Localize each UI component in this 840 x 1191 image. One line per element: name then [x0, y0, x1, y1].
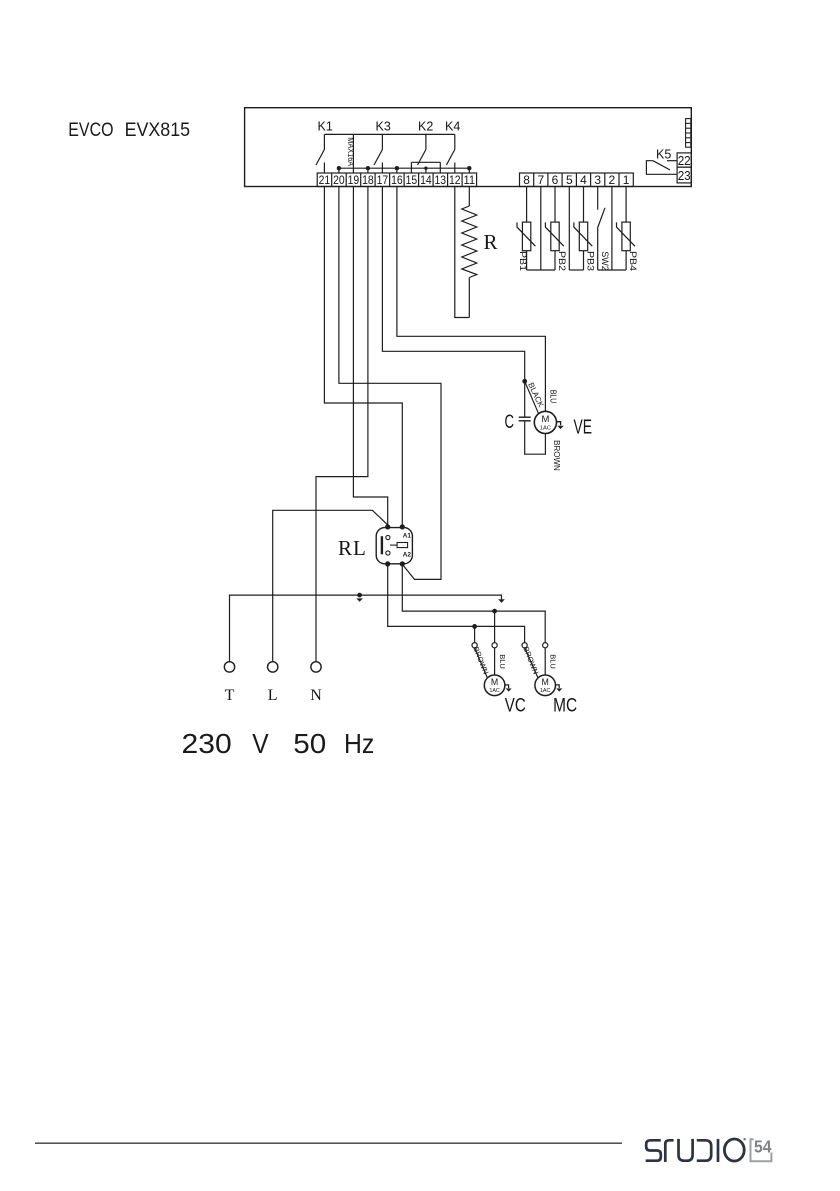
relay contact K3: [374, 134, 382, 173]
svg-text:23: 23: [678, 168, 691, 183]
svg-text:16: 16: [391, 173, 403, 187]
svg-text:8: 8: [523, 173, 530, 187]
svg-text:PB2: PB2: [557, 251, 567, 271]
terminal strip 21-11: [317, 173, 476, 187]
svg-text:12: 12: [449, 173, 461, 187]
svg-text:3: 3: [594, 173, 601, 187]
bridge bus terminals 15-13: [411, 162, 440, 173]
wire RL A2 to blu bus: [402, 564, 545, 643]
svg-text:17: 17: [377, 173, 389, 187]
svg-text:SW2: SW2: [600, 251, 610, 271]
svg-text:PB3: PB3: [585, 251, 595, 271]
terminal strip 8-1: [520, 173, 634, 187]
svg-text:C: C: [505, 412, 515, 433]
junction dot brown bus: [472, 624, 477, 629]
terminal 22: [677, 153, 691, 167]
svg-text:BROWN: BROWN: [521, 646, 540, 676]
bar PB1-7-PB2: [527, 269, 555, 271]
svg-text:1AC: 1AC: [540, 688, 551, 694]
wire to VC blu: [494, 611, 496, 643]
svg-text:13: 13: [435, 173, 447, 187]
top bus (relay commons): [324, 133, 454, 135]
relay contact K5: [646, 161, 677, 175]
probe PB4: [617, 187, 635, 271]
wire black to motor: [525, 381, 539, 413]
svg-text:MAX16A: MAX16A: [346, 137, 355, 167]
wire 16 to VE blu: [397, 187, 546, 412]
svg-text:1: 1: [623, 173, 630, 187]
svg-text:K1: K1: [318, 120, 333, 134]
svg-text:5: 5: [566, 173, 573, 187]
svg-text:M: M: [491, 677, 498, 687]
svg-text:20: 20: [333, 173, 345, 187]
svg-text:A1: A1: [403, 533, 412, 540]
wire 12 loop: [455, 187, 470, 318]
wire T bus: [230, 595, 502, 662]
svg-text:VC: VC: [505, 696, 526, 717]
svg-text:K3: K3: [376, 120, 391, 134]
node black (junction): [522, 379, 527, 384]
svg-text:EVX815: EVX815: [125, 119, 191, 141]
footer rule: [35, 1142, 622, 1144]
bar 5-PB3: [569, 269, 583, 271]
svg-text:A2: A2: [403, 551, 412, 558]
svg-text:7: 7: [537, 173, 544, 187]
svg-text:1AC: 1AC: [540, 426, 551, 432]
svg-text:PB1: PB1: [518, 251, 528, 271]
svg-text:BROWN: BROWN: [552, 440, 561, 471]
junction dot blu bus: [492, 609, 497, 614]
wire 21 to RL A1: [324, 187, 402, 527]
svg-text:1AC: 1AC: [489, 688, 500, 694]
svg-text:BROWN: BROWN: [471, 646, 490, 676]
svg-text:EVCO: EVCO: [68, 119, 113, 141]
svg-text:4: 4: [580, 173, 587, 187]
wire 17 to VE black: [382, 187, 524, 382]
terminal N: [311, 662, 321, 672]
svg-text:MC: MC: [553, 696, 577, 717]
junction marker on T bus: [357, 593, 362, 598]
bar SW2-2-PB4: [598, 269, 626, 271]
wire RL contact to brown bus: [388, 564, 525, 643]
terminal 23: [677, 167, 691, 183]
svg-text:15: 15: [406, 173, 418, 187]
svg-text:21: 21: [319, 173, 331, 187]
svg-text:22: 22: [678, 153, 691, 168]
svg-text:BLACK: BLACK: [526, 381, 546, 409]
svg-text:BLU: BLU: [548, 390, 557, 403]
probe PB3: [574, 187, 592, 271]
lower bus 20-18-16-14-11: [339, 168, 469, 173]
svg-text:R: R: [484, 230, 498, 254]
wire to VC brown: [474, 626, 476, 642]
svg-text:N: N: [310, 687, 322, 704]
wire 7: [540, 187, 542, 271]
arrow end of T bus: [498, 599, 505, 603]
fuse line MAX16A: [352, 134, 354, 173]
svg-text:2: 2: [609, 173, 616, 187]
wire 20 to RL A2: [339, 187, 441, 580]
svg-text:Hz: Hz: [344, 728, 374, 759]
wire 19 to RL contact: [353, 187, 387, 527]
svg-text:BLU: BLU: [498, 654, 507, 669]
svg-text:11: 11: [464, 173, 476, 187]
svg-text:PB4: PB4: [628, 251, 638, 271]
relay contact K1: [316, 134, 324, 173]
junction dots on lower bus: [337, 166, 472, 170]
svg-text:V: V: [252, 728, 269, 759]
probe PB1: [517, 187, 535, 271]
svg-text:K5: K5: [656, 148, 671, 162]
wire 5: [568, 187, 570, 271]
relay RL: [376, 528, 412, 564]
svg-text:K2: K2: [418, 120, 433, 134]
probe PB2: [545, 187, 563, 271]
controller box U1: [245, 108, 692, 187]
logo STUDIO 54: [646, 1139, 745, 1162]
motor VC assembly: [472, 643, 497, 678]
wire L to RL contact: [273, 510, 388, 661]
svg-text:19: 19: [348, 173, 360, 187]
wire 18 to N: [316, 187, 368, 662]
svg-text:L: L: [268, 687, 278, 704]
svg-text:18: 18: [362, 173, 374, 187]
motor MC assembly: [522, 643, 548, 678]
svg-text:BLU: BLU: [548, 654, 557, 669]
switch SW2: [598, 187, 605, 271]
terminal T: [224, 662, 234, 672]
relay contact K2: [418, 134, 426, 173]
svg-text:K4: K4: [445, 120, 460, 134]
svg-text:14: 14: [420, 173, 432, 187]
connector ladder J1: [686, 119, 691, 148]
terminal L: [268, 662, 278, 672]
motor VE: [534, 411, 556, 433]
wire 2: [611, 187, 613, 271]
svg-text:50: 50: [293, 728, 326, 759]
svg-text:T: T: [225, 687, 235, 704]
supply label 230 V 50 Hz: [182, 728, 375, 759]
relay contact K4: [446, 134, 454, 173]
svg-text:RL: RL: [338, 536, 367, 560]
svg-text:M: M: [542, 677, 549, 687]
rotation arrow VE: [557, 422, 561, 426]
svg-text:M: M: [541, 414, 549, 425]
svg-text:230: 230: [182, 728, 232, 759]
title EVCO EVX815: [68, 119, 190, 141]
svg-text:6: 6: [552, 173, 559, 187]
resistor R: [462, 187, 477, 318]
RL pins: [385, 524, 405, 566]
svg-text:VE: VE: [574, 417, 593, 439]
svg-text:54: 54: [754, 1137, 772, 1157]
capacitor C: [519, 381, 546, 454]
